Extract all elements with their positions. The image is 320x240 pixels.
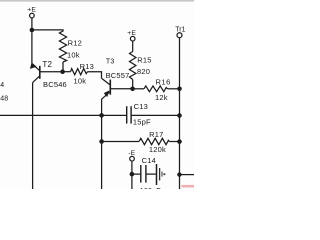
supply +E left terminal circle xyxy=(30,13,35,18)
wire rail right of C13 xyxy=(132,114,180,116)
wire T2 collector down to bottom xyxy=(32,83,34,189)
svg-text:R13: R13 xyxy=(80,62,94,71)
transistor T2 emitter diagonal xyxy=(32,64,40,71)
wire rail left of C13 xyxy=(0,114,126,116)
svg-text:100µF: 100µF xyxy=(140,188,161,189)
wire R16 to Tr1 line xyxy=(168,88,180,90)
wire C14 to C15 xyxy=(147,173,156,175)
svg-text:-E: -E xyxy=(128,150,135,157)
node junction dot bottom right xyxy=(177,172,181,176)
highlight pink mark bottom right xyxy=(182,185,195,188)
svg-text:BC546: BC546 xyxy=(43,80,67,89)
svg-text:R15: R15 xyxy=(137,55,151,64)
transistor T3 emitter diagonal xyxy=(102,92,110,99)
svg-text:4: 4 xyxy=(0,82,4,89)
transistor T2 base bar xyxy=(39,66,41,79)
svg-text:12k: 12k xyxy=(155,93,168,102)
supply +E right terminal circle xyxy=(130,36,135,41)
transistor T3 collector diagonal xyxy=(102,78,110,85)
resistor R13 zigzag xyxy=(71,69,88,75)
svg-text:T3: T3 xyxy=(106,58,115,65)
svg-text:T2: T2 xyxy=(42,60,52,69)
svg-text:R16: R16 xyxy=(156,78,171,87)
svg-text:820: 820 xyxy=(137,67,150,76)
capacitor C15 tall plate xyxy=(156,164,158,185)
node junction dot R17 right xyxy=(177,139,182,144)
node junction dot R16/Tr1 xyxy=(177,87,182,92)
top page border xyxy=(0,0,194,2)
transistor T3 arrow xyxy=(104,90,110,97)
resistor R12 zigzag xyxy=(59,30,66,62)
node junction dot T3 emitter/rail xyxy=(99,113,104,118)
wire R12 bottom to base node xyxy=(62,62,64,72)
wire Tr1 vertical to bottom xyxy=(179,38,181,189)
svg-text:Tr1: Tr1 xyxy=(175,27,185,34)
node junction dot R17 left xyxy=(99,139,104,144)
transistor T3 base bar xyxy=(109,80,111,95)
wire R15 bottom to node xyxy=(132,80,134,89)
svg-text:48: 48 xyxy=(0,96,8,103)
svg-text:+E: +E xyxy=(127,30,136,37)
capacitor C14 left plate xyxy=(140,165,142,183)
wire from +E down to T2 emitter xyxy=(31,18,33,64)
node junction dot -E/C14 xyxy=(130,172,135,177)
capacitor C15 faded dot xyxy=(163,173,165,175)
svg-text:120k: 120k xyxy=(149,145,166,154)
wire -E down to bottom xyxy=(131,161,133,189)
node junction dot rail/Tr1 line xyxy=(177,113,182,118)
resistor R17 zigzag xyxy=(139,138,169,144)
transistor T2 collector diagonal xyxy=(33,76,40,82)
terminal Tr1 circle xyxy=(177,33,182,38)
wire T3 emitter down to bottom xyxy=(101,99,103,189)
wire +E right down to R15 xyxy=(132,41,134,52)
supply -E terminal circle xyxy=(130,156,135,161)
node junction dot R12/base xyxy=(60,69,65,74)
svg-text:BC557: BC557 xyxy=(106,71,130,80)
node junction dot R15/R16/T3 base xyxy=(130,87,135,92)
wire node to R16 xyxy=(133,88,144,90)
capacitor C14 right plate xyxy=(145,165,147,183)
svg-text:R12: R12 xyxy=(68,38,82,47)
svg-text:C13: C13 xyxy=(134,102,148,111)
resistor R16 zigzag xyxy=(144,86,168,92)
capacitor C15 faded plate 2 xyxy=(159,168,161,180)
wire from node to R12 top xyxy=(32,29,63,32)
transistor T2 arrow xyxy=(30,62,37,69)
wire node to R17 xyxy=(102,141,139,143)
wire T3 base lead to R15 node xyxy=(111,88,133,90)
svg-text:15pF: 15pF xyxy=(133,118,151,127)
wire bottom right to edge xyxy=(179,174,194,176)
svg-text:C14: C14 xyxy=(142,156,156,165)
capacitor C13 right plate xyxy=(130,106,132,123)
capacitor C15 faded plate 3 xyxy=(161,172,163,177)
wire base node to R13 xyxy=(63,71,71,73)
svg-text:10k: 10k xyxy=(67,51,80,60)
svg-text:+E: +E xyxy=(27,7,36,14)
wire T2 base lead xyxy=(40,71,63,73)
node junction dot at +E rail xyxy=(30,28,35,33)
wire R13 to T3 collector elbow xyxy=(88,72,102,79)
resistor R15 zigzag xyxy=(130,52,136,80)
wire R17 to Tr1 line xyxy=(169,141,179,143)
capacitor C13 left plate xyxy=(126,106,128,123)
svg-text:R17: R17 xyxy=(149,130,163,139)
wire node to C14 xyxy=(132,173,140,175)
svg-text:10k: 10k xyxy=(74,76,87,85)
